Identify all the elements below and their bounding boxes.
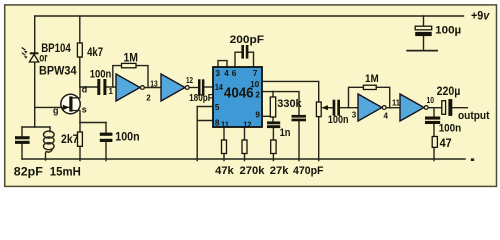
svg-text:1M: 1M xyxy=(124,51,139,64)
capacitor 100n (audio coupling) xyxy=(333,100,340,116)
svg-text:8: 8 xyxy=(215,119,220,128)
resistor 27k xyxy=(271,140,276,154)
svg-text:4: 4 xyxy=(224,69,229,78)
resistor 330k xyxy=(270,97,275,117)
capacitor 180pF xyxy=(198,79,204,95)
transistor Q1 JFET xyxy=(53,85,87,116)
svg-text:9: 9 xyxy=(255,110,260,119)
wire 100n to N3 input xyxy=(340,107,358,109)
wire +9V top rail xyxy=(35,15,464,17)
wire 2k7 leads xyxy=(79,123,81,161)
photodiode D1 xyxy=(29,53,38,62)
svg-text:47: 47 xyxy=(440,136,452,150)
wire 330k leads xyxy=(272,92,274,122)
svg-text:4k7: 4k7 xyxy=(87,47,103,59)
wire pin 12 to 270k xyxy=(244,127,246,161)
wire 470pF to ground rail xyxy=(298,121,300,160)
wire N1 output to N2 input xyxy=(145,87,161,89)
wire pin 9 to loop filter xyxy=(262,115,273,117)
wire potentiometer bottom xyxy=(318,117,320,161)
wire 200pF loop pins 6-7 xyxy=(235,52,254,67)
resistor 1M (N3 feedback) xyxy=(363,85,376,89)
svg-text:output: output xyxy=(458,110,490,122)
svg-text:14: 14 xyxy=(215,83,223,92)
svg-text:4046: 4046 xyxy=(224,84,254,101)
svg-text:10: 10 xyxy=(250,80,259,89)
svg-text:100n: 100n xyxy=(115,130,139,144)
op-amp N1 inverter xyxy=(116,74,144,101)
svg-text:330k: 330k xyxy=(277,98,301,110)
wire 220u to output xyxy=(452,107,467,109)
wire N2 output to 180pF xyxy=(189,87,198,89)
border frame xyxy=(0,0,500,189)
wire 100n source-bypass leads xyxy=(105,123,107,161)
wire 4k7 leads xyxy=(79,16,81,87)
potentiometer xyxy=(316,102,328,117)
svg-text:13: 13 xyxy=(150,80,158,89)
light arrows into photodiode xyxy=(22,48,28,59)
svg-text:11: 11 xyxy=(392,98,401,107)
svg-text:BPW34: BPW34 xyxy=(39,63,77,77)
wire gate of Q1 xyxy=(35,106,60,108)
op-amp N3 inverter xyxy=(358,94,386,121)
resistor 270k xyxy=(242,140,247,154)
op-amp N4 inverter xyxy=(400,94,428,121)
svg-text:s: s xyxy=(82,105,87,115)
svg-text:7: 7 xyxy=(253,69,258,78)
resistor 2k7 xyxy=(78,132,83,146)
svg-text:+9v: +9v xyxy=(471,10,490,22)
wire drain of Q1 vertical xyxy=(79,87,81,94)
wire N4 output to 220u xyxy=(429,107,442,109)
svg-text:100n: 100n xyxy=(90,69,112,81)
svg-text:270k: 270k xyxy=(240,165,266,177)
svg-text:10: 10 xyxy=(427,96,435,105)
svg-text:1n: 1n xyxy=(280,127,291,139)
resistor 47 xyxy=(432,137,437,148)
wire source of Q1 vertical xyxy=(79,114,81,123)
svg-text:15mH: 15mH xyxy=(50,165,81,179)
wire 82pF leads xyxy=(21,127,23,159)
wire 1n to 27k to rail xyxy=(272,128,274,161)
wire 100u leads xyxy=(423,16,425,50)
wire feedback loop N3 xyxy=(349,87,390,107)
svg-text:1M: 1M xyxy=(365,73,379,85)
wire N3 output to N4 input xyxy=(387,107,401,109)
wire photodiode branch bottom xyxy=(34,62,36,127)
resistor 47k xyxy=(222,140,227,154)
wire pin 11 to 47k xyxy=(223,127,225,161)
capacitor 82pF xyxy=(15,136,30,144)
svg-text:180pF: 180pF xyxy=(189,93,213,104)
svg-text:100n: 100n xyxy=(439,122,462,134)
svg-text:6: 6 xyxy=(232,69,237,78)
svg-text:220µ: 220µ xyxy=(437,86,461,98)
negative supply dash xyxy=(471,158,474,161)
svg-text:3: 3 xyxy=(352,111,357,120)
svg-text:27k: 27k xyxy=(270,165,289,177)
capacitor 100n (gate coupling C) xyxy=(97,79,106,95)
op-amp N2 inverter xyxy=(161,74,189,101)
capacitor 220u electrolytic xyxy=(442,99,453,116)
wire pin 2 to 470pF xyxy=(262,92,299,115)
svg-text:2: 2 xyxy=(146,94,151,103)
svg-text:3: 3 xyxy=(215,69,220,78)
resistor 1M (N1 feedback) xyxy=(122,63,137,67)
svg-text:2: 2 xyxy=(255,91,260,100)
svg-text:or: or xyxy=(39,50,47,64)
capacitor 1n xyxy=(267,121,280,128)
svg-text:4: 4 xyxy=(384,112,389,121)
svg-text:12: 12 xyxy=(186,76,193,85)
svg-text:2k7: 2k7 xyxy=(61,134,79,146)
wire node A to C1 xyxy=(80,86,97,88)
svg-text:12: 12 xyxy=(243,120,251,129)
battery negative bar under 100u xyxy=(406,50,438,52)
wire pin 10 to potentiometer xyxy=(262,81,319,102)
capacitor 100u electrolytic xyxy=(415,26,432,36)
wire C1 to inverter N1 input xyxy=(106,86,116,88)
svg-text:5: 5 xyxy=(215,103,220,112)
wire source row to 100n xyxy=(80,122,106,124)
svg-text:47k: 47k xyxy=(215,165,234,177)
svg-text:100n: 100n xyxy=(328,114,349,126)
wire photodiode branch top xyxy=(34,16,36,53)
svg-text:470pF: 470pF xyxy=(293,165,324,177)
svg-text:11: 11 xyxy=(221,120,229,129)
svg-text:g: g xyxy=(53,106,59,116)
capacitor 100n (source bypass) xyxy=(100,133,113,142)
wire pins 5 and 8 to ground xyxy=(197,107,213,161)
wire 180pF to pin 14 xyxy=(204,86,213,88)
wire ground bottom rail xyxy=(22,158,465,160)
IC U1 4046 xyxy=(213,67,262,129)
wire feedback loop N1 xyxy=(113,66,148,87)
wire coil leads xyxy=(49,127,51,132)
capacitor 100n (output zobel) xyxy=(425,117,440,125)
svg-text:200pF: 200pF xyxy=(230,34,265,46)
svg-text:100µ: 100µ xyxy=(435,24,461,36)
wire LC tank top xyxy=(22,126,50,128)
capacitor 200pF xyxy=(241,45,248,59)
capacitor 470pF xyxy=(292,115,307,121)
inductor 15mH xyxy=(44,131,55,161)
svg-text:82pF: 82pF xyxy=(14,165,43,179)
wire wiper to 100n xyxy=(323,107,333,109)
svg-text:d: d xyxy=(82,85,88,95)
svg-text:1: 1 xyxy=(109,87,114,96)
label BP104 or BPW34 xyxy=(39,41,77,77)
wire bracket pins 3-4 xyxy=(218,61,227,67)
resistor 4k7 xyxy=(77,43,82,57)
wire output node down to 100n xyxy=(433,108,435,161)
